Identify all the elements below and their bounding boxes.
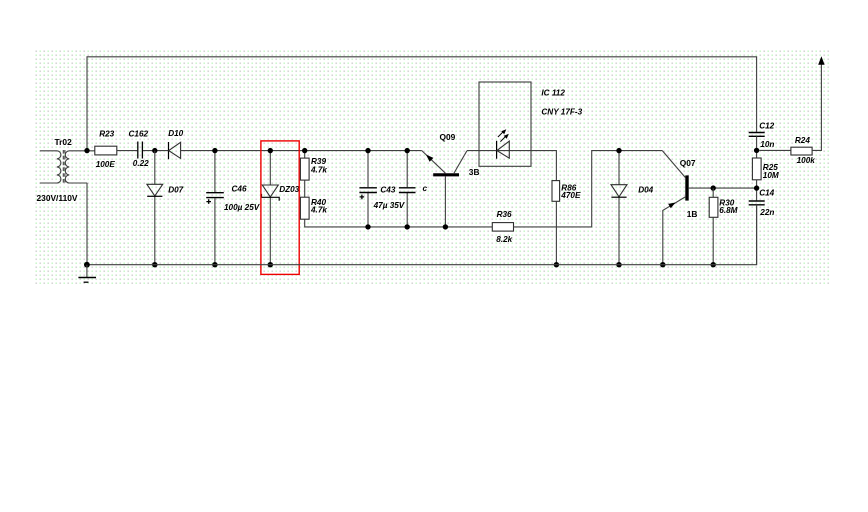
wire secondary bottom to ground rail <box>86 183 88 265</box>
capacitor C43 <box>359 151 405 227</box>
svg-text:DZ03: DZ03 <box>279 185 299 194</box>
capacitor C46 <box>206 151 261 265</box>
svg-text:470E: 470E <box>560 191 581 200</box>
svg-text:100µ 25V: 100µ 25V <box>224 203 261 212</box>
ground <box>78 265 96 283</box>
node C12/R24 junction <box>754 148 759 153</box>
optocoupler U1 box IC 112 CNY 17F-3 <box>479 82 583 166</box>
arrow up output <box>818 56 824 65</box>
svg-text:C46: C46 <box>232 185 247 194</box>
node at transformer/top-rail junction <box>84 148 89 153</box>
node C43 bottom <box>365 224 370 229</box>
node C46 bottom <box>212 262 217 267</box>
svg-text:3B: 3B <box>469 167 480 177</box>
transistor Q07 <box>662 151 756 265</box>
node C46 top <box>212 148 217 153</box>
capacitor C162 <box>129 129 150 168</box>
svg-text:R36: R36 <box>497 210 512 219</box>
wire R86 to bottom rail <box>555 201 557 264</box>
svg-text:R24: R24 <box>795 136 810 145</box>
resistor R36 <box>492 210 513 244</box>
transistor Q09 <box>422 132 480 227</box>
wire bottom ground rail <box>87 205 757 265</box>
node Q07 emitter bottom <box>660 262 665 267</box>
svg-text:Q07: Q07 <box>680 158 696 168</box>
resistor R40 <box>300 197 327 219</box>
zener diode DZ03 <box>262 151 300 265</box>
svg-text:47µ 35V: 47µ 35V <box>373 201 406 210</box>
node R30 top <box>711 185 716 190</box>
wire Q09 collector to R86 corner <box>467 151 557 181</box>
capacitor C14 <box>749 188 775 264</box>
svg-text:C43: C43 <box>380 186 395 195</box>
node ground left <box>84 262 90 268</box>
wire main rail D10 to Q09 <box>181 150 422 152</box>
svg-text:100E: 100E <box>96 160 116 169</box>
svg-text:Q09: Q09 <box>440 132 456 142</box>
red highlight box <box>261 141 299 275</box>
node Q09 bottom <box>443 224 448 229</box>
wire R23 to C162 <box>117 150 137 152</box>
svg-text:4.7k: 4.7k <box>310 206 327 215</box>
wire R36 to corner up to Q07 <box>514 151 663 227</box>
svg-text:230V/110V: 230V/110V <box>37 193 78 203</box>
svg-text:R23: R23 <box>99 129 114 138</box>
resistor R24 <box>759 136 815 165</box>
svg-text:C14: C14 <box>759 188 774 197</box>
svg-text:0.22: 0.22 <box>133 159 149 168</box>
capacitor C12 <box>749 122 775 158</box>
svg-text:1B: 1B <box>687 209 698 219</box>
node D07 tap <box>152 148 157 153</box>
svg-text:4.7k: 4.7k <box>310 165 327 174</box>
node C43 top <box>365 148 370 153</box>
diode D10 <box>168 129 183 159</box>
node D07 bottom <box>152 262 157 267</box>
svg-text:Tr02: Tr02 <box>55 137 73 147</box>
resistor R39 <box>300 151 327 181</box>
svg-text:8.2k: 8.2k <box>496 235 512 244</box>
node R25/C14/base junction <box>754 185 759 190</box>
svg-text:c: c <box>423 184 428 193</box>
capacitor c <box>399 151 428 227</box>
node R39 top <box>302 148 307 153</box>
svg-text:D07: D07 <box>168 185 183 194</box>
node DZ03 top <box>268 148 273 153</box>
wire R39 to R40 <box>304 180 306 197</box>
svg-text:IC 112: IC 112 <box>541 88 565 97</box>
node D04 top <box>616 148 621 153</box>
svg-text:C162: C162 <box>129 129 149 138</box>
diode D04 <box>611 151 654 265</box>
wire R24 up with arrow <box>812 64 821 150</box>
svg-text:C12: C12 <box>759 122 774 131</box>
transformer Tr02 <box>37 137 95 203</box>
svg-text:100k: 100k <box>797 156 816 165</box>
svg-text:22n: 22n <box>759 208 774 217</box>
node R86 bottom <box>554 262 559 267</box>
wire top rail <box>87 57 757 150</box>
svg-text:CNY 17F-3: CNY 17F-3 <box>541 107 582 116</box>
svg-text:6.8M: 6.8M <box>719 206 737 215</box>
svg-text:10M: 10M <box>763 171 779 180</box>
node DZ03 bottom <box>268 262 273 267</box>
node R30 bottom <box>711 262 716 267</box>
node D04 bottom <box>616 262 621 267</box>
svg-text:D04: D04 <box>638 186 653 195</box>
LED inside optocoupler <box>497 129 510 159</box>
diode D07 <box>147 151 184 265</box>
resistor R23 <box>95 129 117 169</box>
node c top <box>405 148 410 153</box>
svg-text:10n: 10n <box>760 140 774 149</box>
wire R25 to node <box>756 180 758 201</box>
wire C162 to D10 <box>143 150 169 152</box>
resistor R30 <box>709 188 737 265</box>
resistor R86 <box>552 181 581 202</box>
node c bottom <box>405 224 410 229</box>
resistor R25 <box>752 158 779 180</box>
svg-text:D10: D10 <box>168 129 183 138</box>
wire R40 bottom rail to R36 <box>305 219 493 227</box>
